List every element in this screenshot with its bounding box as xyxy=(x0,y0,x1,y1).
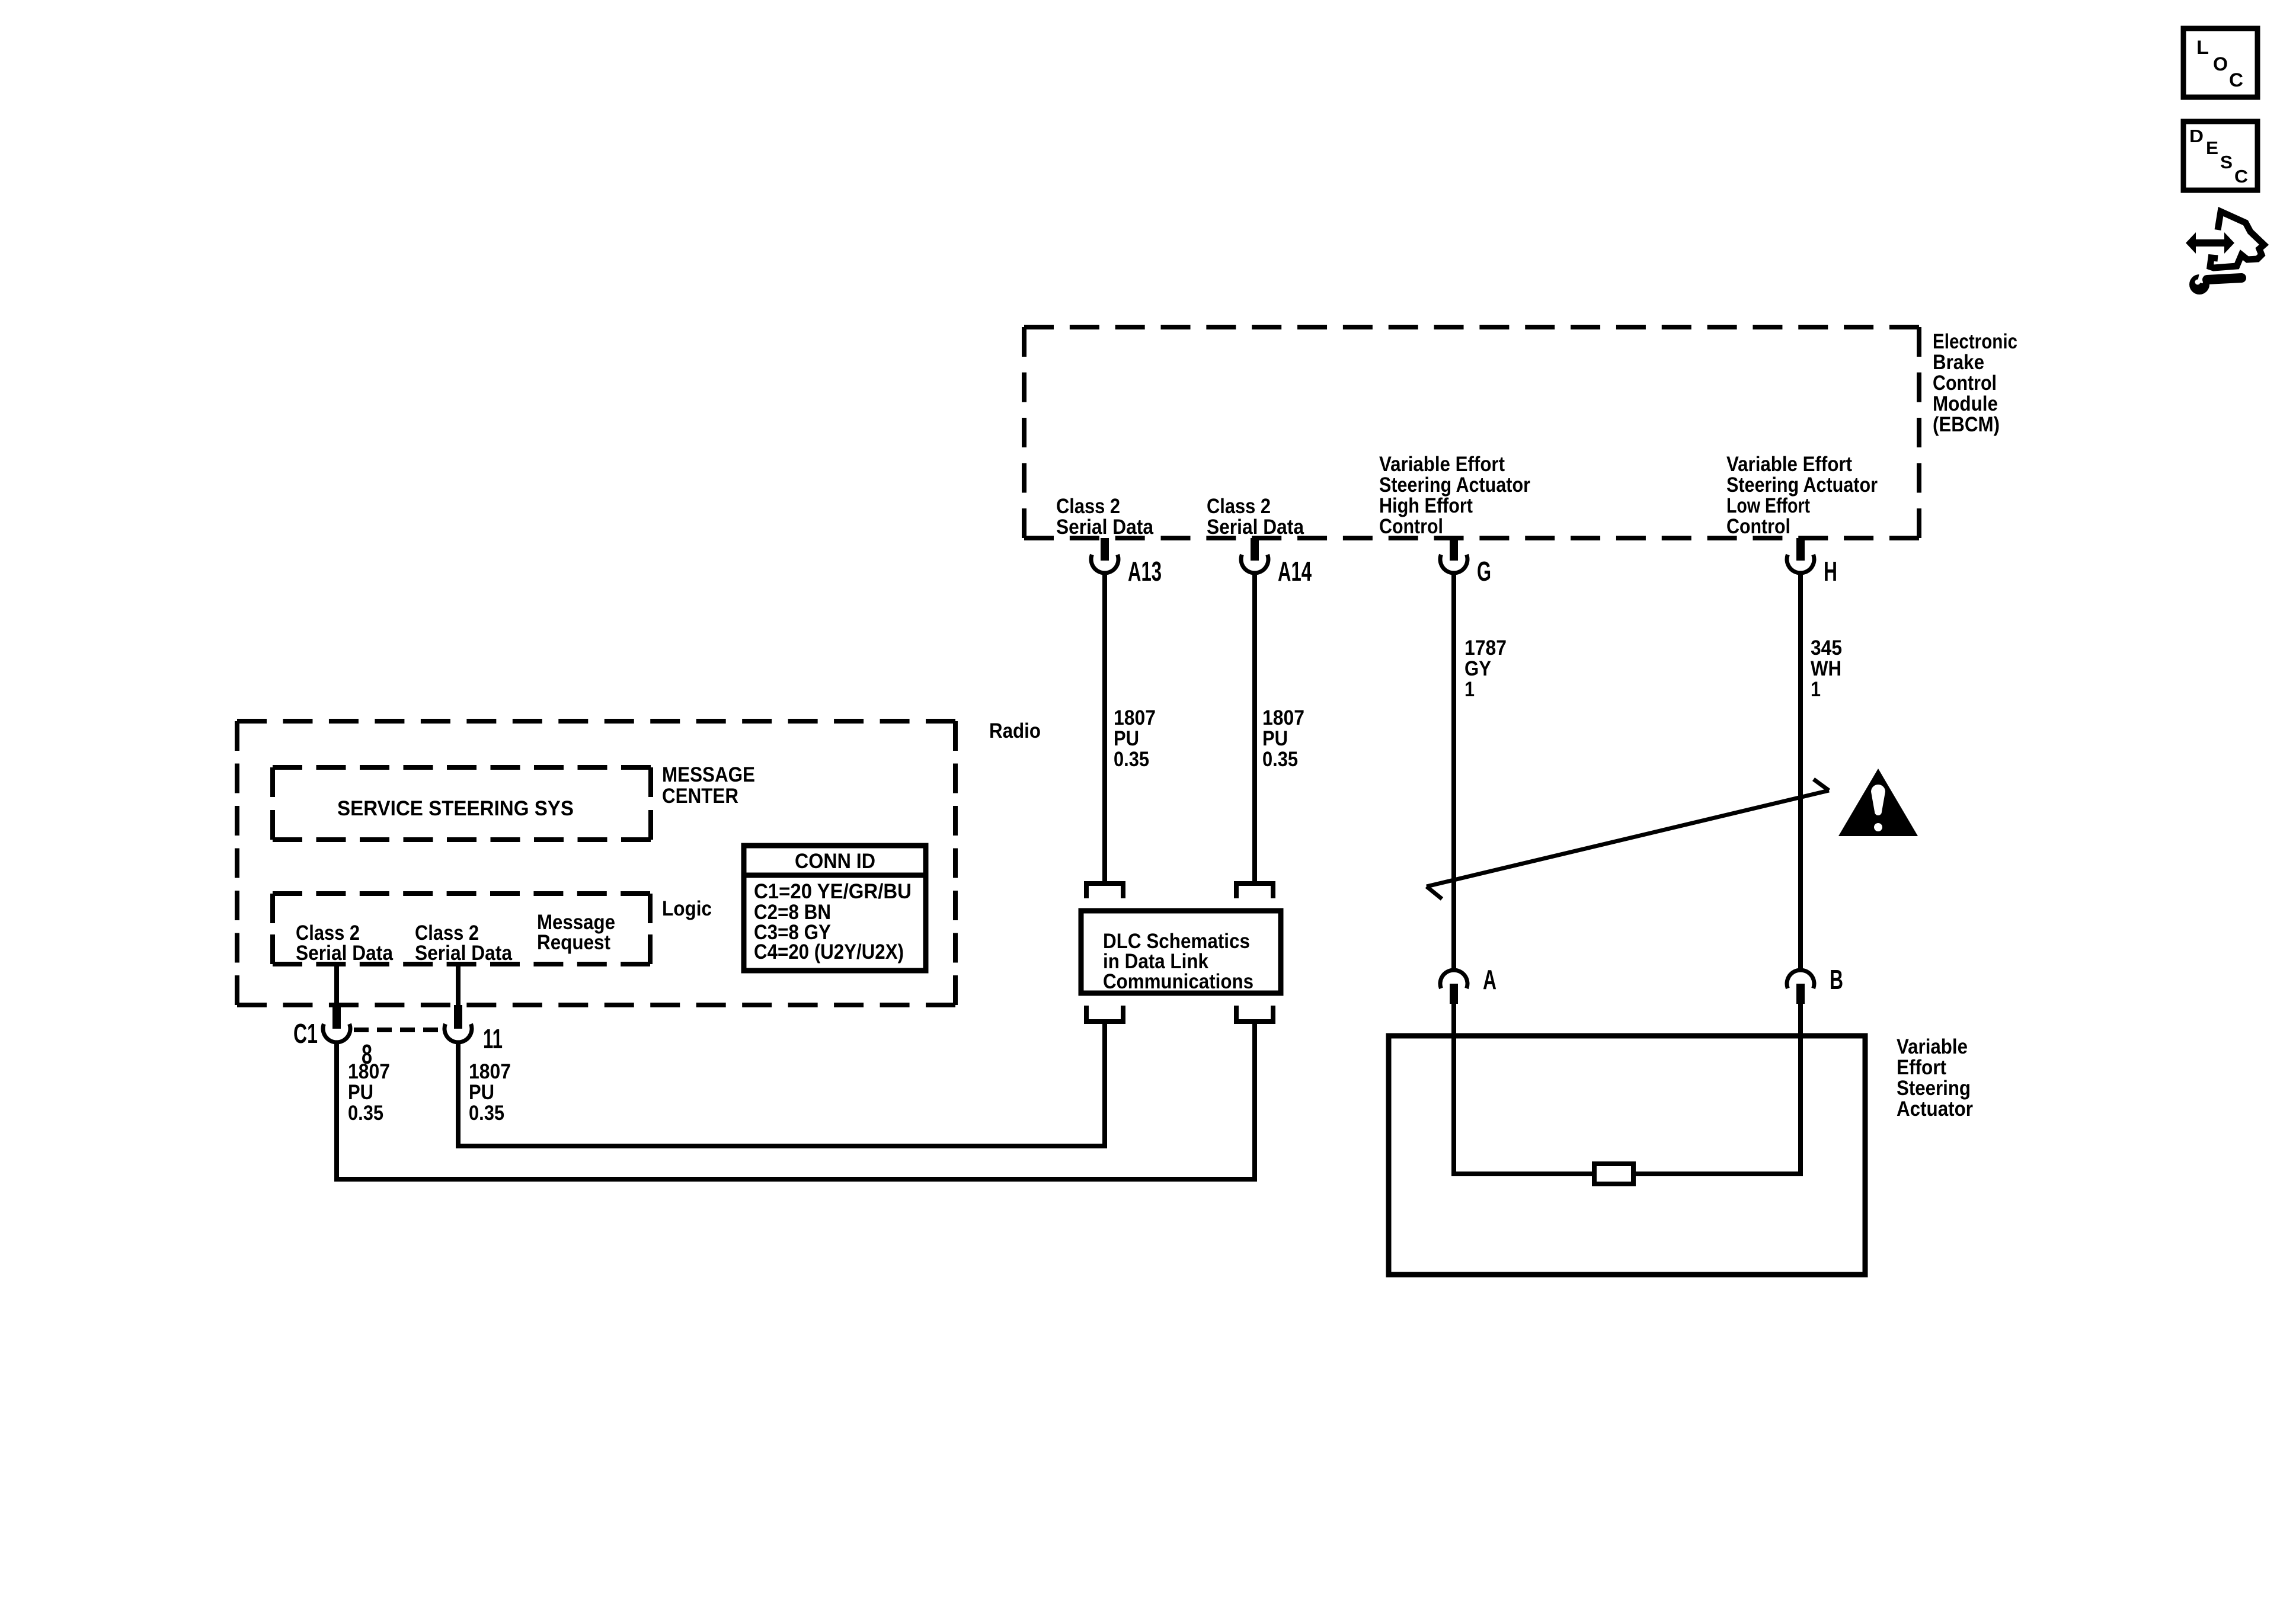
EBCM pin label Variable Effort Steering Actuator Low Effort Control xyxy=(1726,453,1878,538)
EBCM pin label Class 2 Serial Data (A13) xyxy=(1056,495,1153,539)
svg-text:C1=20 YE/GR/BU: C1=20 YE/GR/BU xyxy=(754,880,912,903)
svg-text:Brake: Brake xyxy=(1933,351,1984,374)
connector G xyxy=(1440,538,1491,587)
MESSAGE CENTER label xyxy=(662,763,755,808)
Logic pin label Message Request xyxy=(537,911,615,954)
svg-text:A13: A13 xyxy=(1128,556,1162,587)
svg-text:0.35: 0.35 xyxy=(1262,748,1298,771)
svg-text:E: E xyxy=(2206,137,2218,158)
svg-text:Steering Actuator: Steering Actuator xyxy=(1379,473,1530,497)
MESSAGE CENTER dashed box xyxy=(273,767,651,840)
wire label 1807 PU 0.35 (pin 8) xyxy=(348,1060,390,1125)
wire pin 8 down xyxy=(334,1042,339,1182)
svg-text:S: S xyxy=(2220,152,2233,172)
svg-text:Variable Effort: Variable Effort xyxy=(1379,453,1505,476)
wire A into actuator xyxy=(1451,1004,1456,1176)
wire A14 to DLC bracket xyxy=(1252,573,1257,881)
svg-text:Variable Effort: Variable Effort xyxy=(1726,453,1852,476)
svg-text:PU: PU xyxy=(469,1081,494,1104)
svg-text:0.35: 0.35 xyxy=(1114,748,1149,771)
wire pin 11 down xyxy=(456,1042,461,1148)
wire H to connector B xyxy=(1798,573,1803,970)
pointer arrow xyxy=(1427,779,1829,899)
EBCM label xyxy=(1933,330,2017,436)
svg-text:Communications: Communications xyxy=(1103,970,1253,993)
svg-text:Serial Data: Serial Data xyxy=(1056,516,1153,539)
connector C1 pin 8 xyxy=(323,1005,350,1042)
svg-text:Serial Data: Serial Data xyxy=(296,942,393,965)
EBCM pin label Variable Effort Steering Actuator High Effort Control xyxy=(1379,453,1530,538)
svg-text:Serial Data: Serial Data xyxy=(1207,516,1304,539)
EBCM dashed box xyxy=(1024,327,1919,538)
wire pin 11 from Logic box xyxy=(456,964,461,1006)
wire A13 to DLC bracket xyxy=(1102,573,1107,881)
Logic pin label Class 2 Serial Data (pin 8) xyxy=(296,921,393,965)
svg-text:PU: PU xyxy=(1114,727,1139,750)
svg-text:A14: A14 xyxy=(1278,556,1312,587)
Logic pin label Class 2 Serial Data (pin 11) xyxy=(415,921,512,965)
svg-text:PU: PU xyxy=(348,1081,373,1104)
svg-text:Steering: Steering xyxy=(1897,1077,1971,1100)
svg-text:C: C xyxy=(2234,166,2248,187)
svg-text:Request: Request xyxy=(537,931,610,954)
svg-text:1787: 1787 xyxy=(1464,636,1507,660)
svg-text:H: H xyxy=(1824,556,1837,587)
svg-text:0.35: 0.35 xyxy=(469,1102,504,1125)
svg-text:Class 2: Class 2 xyxy=(1056,495,1120,518)
wire label 1807 PU 0.35 (A13) xyxy=(1114,706,1156,771)
svg-text:0.35: 0.35 xyxy=(348,1102,383,1125)
DLC top bracket right xyxy=(1236,884,1273,898)
C1 connector dashed jumper xyxy=(354,1028,443,1032)
svg-text:A: A xyxy=(1483,964,1496,995)
wire DLC left to pin 11 run xyxy=(1102,1022,1107,1148)
svg-text:SERVICE STEERING SYS: SERVICE STEERING SYS xyxy=(337,797,574,820)
wire inside actuator xyxy=(1451,1172,1803,1176)
wrench/diagnostic icon xyxy=(2186,212,2264,295)
wire label 345 WH 1 xyxy=(1811,636,1842,701)
wire label 1807 PU 0.35 (pin 11) xyxy=(469,1060,511,1125)
DESC icon xyxy=(2183,121,2257,190)
svg-text:G: G xyxy=(1477,556,1491,587)
LOC icon xyxy=(2183,28,2257,97)
svg-text:L: L xyxy=(2196,37,2209,58)
wire horizontal pin 8 xyxy=(337,1177,1257,1182)
svg-text:C1: C1 xyxy=(293,1018,318,1049)
actuator element xyxy=(1594,1164,1633,1184)
connector A14 xyxy=(1241,538,1312,587)
warning triangle xyxy=(1838,769,1918,836)
svg-text:Control: Control xyxy=(1379,515,1443,538)
connector B xyxy=(1787,964,1843,1004)
svg-text:1: 1 xyxy=(1811,678,1821,701)
wire G to connector A xyxy=(1451,573,1456,970)
svg-text:Effort: Effort xyxy=(1897,1056,1946,1079)
svg-text:GY: GY xyxy=(1464,657,1491,680)
DLC bottom bracket left xyxy=(1086,1006,1123,1022)
svg-text:Control: Control xyxy=(1726,515,1790,538)
svg-text:Module: Module xyxy=(1933,392,1998,415)
Radio dashed box xyxy=(237,721,955,1005)
svg-text:1807: 1807 xyxy=(1262,706,1304,729)
svg-text:Low Effort: Low Effort xyxy=(1726,494,1810,517)
svg-text:High Effort: High Effort xyxy=(1379,494,1473,517)
svg-text:Actuator: Actuator xyxy=(1897,1097,1973,1121)
svg-text:Steering Actuator: Steering Actuator xyxy=(1726,473,1878,497)
wire DLC right to pin 8 run xyxy=(1252,1022,1257,1182)
svg-text:Variable: Variable xyxy=(1897,1035,1968,1058)
svg-text:1: 1 xyxy=(1464,678,1475,701)
DLC Schematics box xyxy=(1081,911,1281,993)
svg-text:C4=20 (U2Y/U2X): C4=20 (U2Y/U2X) xyxy=(754,940,904,964)
wire pin 8 from Logic box xyxy=(334,964,339,1006)
svg-text:Logic: Logic xyxy=(662,897,712,920)
svg-text:11: 11 xyxy=(483,1023,503,1054)
wire label 1807 PU 0.35 (A14) xyxy=(1262,706,1304,771)
svg-text:PU: PU xyxy=(1262,727,1288,750)
DLC bottom bracket right xyxy=(1236,1006,1273,1022)
svg-text:CENTER: CENTER xyxy=(662,785,738,808)
connector H xyxy=(1787,538,1837,587)
svg-text:O: O xyxy=(2213,53,2228,75)
Variable Effort Steering Actuator box xyxy=(1389,1036,1865,1275)
svg-text:CONN ID: CONN ID xyxy=(795,850,875,873)
svg-text:345: 345 xyxy=(1811,636,1842,660)
svg-text:1807: 1807 xyxy=(469,1060,511,1083)
svg-text:MESSAGE: MESSAGE xyxy=(662,763,755,786)
connector A xyxy=(1440,964,1496,1004)
wire horizontal pin 11 xyxy=(458,1144,1107,1148)
svg-text:Class 2: Class 2 xyxy=(1207,495,1271,518)
svg-text:D: D xyxy=(2189,126,2204,146)
CONN ID table xyxy=(744,846,926,971)
actuator label xyxy=(1897,1035,1973,1121)
svg-text:(EBCM): (EBCM) xyxy=(1933,413,2000,436)
wire B into actuator xyxy=(1798,1004,1803,1176)
svg-text:WH: WH xyxy=(1811,657,1841,680)
connector A13 xyxy=(1091,538,1162,587)
svg-text:C: C xyxy=(2229,69,2243,91)
svg-text:Electronic: Electronic xyxy=(1933,330,2017,353)
DLC top bracket left xyxy=(1086,884,1123,898)
wire label 1787 GY 1 xyxy=(1464,636,1507,701)
Logic dashed box xyxy=(273,894,650,964)
svg-text:Radio: Radio xyxy=(989,719,1041,742)
svg-text:B: B xyxy=(1830,964,1843,995)
svg-text:1807: 1807 xyxy=(1114,706,1156,729)
EBCM pin label Class 2 Serial Data (A14) xyxy=(1207,495,1304,539)
svg-text:Serial Data: Serial Data xyxy=(415,942,512,965)
svg-text:Control: Control xyxy=(1933,372,1997,395)
connector C1 pin 11 xyxy=(445,1005,472,1042)
svg-text:1807: 1807 xyxy=(348,1060,390,1083)
